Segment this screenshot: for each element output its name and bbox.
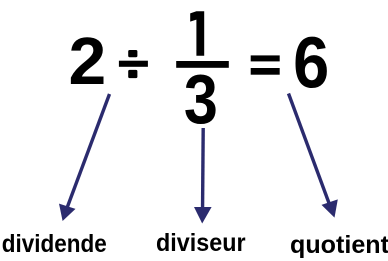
fraction numerator digit 1: [190, 11, 204, 56]
fraction bar: [176, 61, 229, 68]
svg-text:quotient: quotient: [290, 231, 388, 259]
svg-text:diviseur: diviseur: [156, 229, 246, 257]
dividend digit 2: [69, 25, 107, 99]
division sign: bottom dot: [128, 70, 137, 78]
equals sign: bottom bar: [251, 68, 280, 75]
svg-text:dividende: dividende: [2, 230, 107, 258]
arrow to dividende: head: [59, 204, 76, 221]
division sign: bar: [119, 61, 148, 67]
arrow to diviseur: shaft: [201, 128, 205, 215]
fraction denominator digit 3: [184, 60, 218, 138]
svg-text:3: 3: [184, 60, 218, 138]
arrow to quotient: head: [322, 199, 338, 217]
arrow to diviseur: head: [194, 207, 212, 224]
arrow to dividende: shaft: [66, 94, 110, 212]
arrow to quotient: shaft: [289, 94, 332, 209]
equals sign: top bar: [251, 55, 280, 61]
svg-text:2: 2: [69, 25, 107, 99]
division sign: top dot: [128, 50, 137, 57]
svg-text:6: 6: [293, 22, 329, 103]
quotient digit 6: [293, 22, 329, 103]
